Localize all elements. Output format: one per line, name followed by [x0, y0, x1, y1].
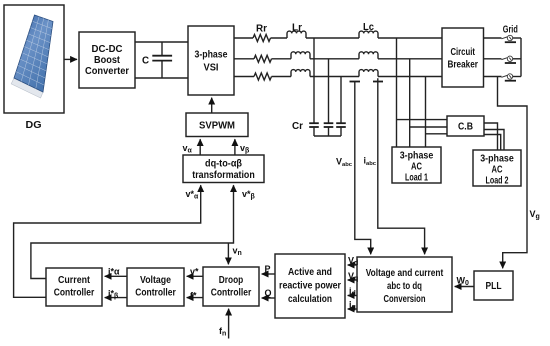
- svg-text:reactive power: reactive power: [279, 281, 341, 292]
- svg-text:v*α: v*α: [186, 189, 200, 201]
- svg-text:AC: AC: [411, 162, 422, 173]
- svg-text:v*: v*: [190, 267, 199, 277]
- svg-text:C.B: C.B: [458, 122, 473, 133]
- svg-text:Cr: Cr: [292, 121, 303, 132]
- svg-text:Breaker: Breaker: [447, 60, 478, 71]
- svg-text:3-phase: 3-phase: [480, 154, 514, 165]
- svg-text:Boost: Boost: [94, 55, 121, 66]
- svg-text:Controller: Controller: [135, 288, 176, 299]
- svg-text:Vabc: Vabc: [336, 157, 353, 169]
- svg-text:transformation: transformation: [192, 170, 255, 181]
- svg-text:Converter: Converter: [85, 66, 129, 77]
- svg-text:Current: Current: [58, 275, 91, 286]
- svg-text:SVPWM: SVPWM: [199, 121, 235, 132]
- svg-text:Q: Q: [265, 288, 272, 298]
- svg-text:DG: DG: [26, 120, 42, 131]
- svg-text:Circuit: Circuit: [450, 47, 475, 58]
- svg-text:C: C: [142, 56, 149, 67]
- svg-text:id: id: [349, 286, 356, 298]
- svg-text:Rr: Rr: [256, 24, 267, 35]
- svg-text:Load 1: Load 1: [405, 173, 428, 184]
- svg-text:Lc: Lc: [363, 22, 375, 33]
- svg-text:abc to dq: abc to dq: [387, 281, 422, 292]
- svg-text:Grid: Grid: [503, 24, 518, 35]
- svg-text:Vg: Vg: [530, 209, 540, 221]
- svg-text:3-phase: 3-phase: [195, 50, 228, 61]
- svg-text:DC-DC: DC-DC: [92, 44, 123, 55]
- svg-text:f*: f*: [190, 291, 197, 301]
- svg-text:i*α: i*α: [108, 267, 120, 277]
- svg-text:Voltage and current: Voltage and current: [366, 268, 444, 279]
- svg-text:iq: iq: [349, 300, 356, 312]
- svg-text:Conversion: Conversion: [384, 294, 426, 305]
- svg-text:vβ: vβ: [240, 143, 250, 155]
- svg-text:Voltage: Voltage: [140, 275, 171, 286]
- svg-text:Controller: Controller: [211, 288, 252, 299]
- svg-text:fn: fn: [219, 326, 226, 338]
- svg-text:W0: W0: [457, 276, 470, 288]
- svg-text:P: P: [265, 264, 271, 274]
- svg-text:Lr: Lr: [292, 23, 302, 34]
- svg-text:v*β: v*β: [242, 189, 256, 201]
- svg-text:Droop: Droop: [219, 275, 244, 286]
- svg-text:Controller: Controller: [54, 288, 95, 299]
- svg-text:AC: AC: [492, 165, 503, 176]
- svg-text:i*β: i*β: [108, 289, 119, 301]
- svg-text:vα: vα: [183, 143, 193, 155]
- svg-text:dq-to-αβ: dq-to-αβ: [205, 159, 242, 170]
- svg-text:Load 2: Load 2: [486, 176, 509, 187]
- svg-text:calculation: calculation: [288, 294, 332, 305]
- svg-text:Active and: Active and: [288, 267, 332, 278]
- svg-text:PLL: PLL: [486, 281, 502, 292]
- svg-text:VSI: VSI: [204, 63, 219, 74]
- svg-text:vn: vn: [233, 246, 242, 258]
- svg-text:iabc: iabc: [364, 156, 377, 168]
- svg-text:3-phase: 3-phase: [400, 151, 434, 162]
